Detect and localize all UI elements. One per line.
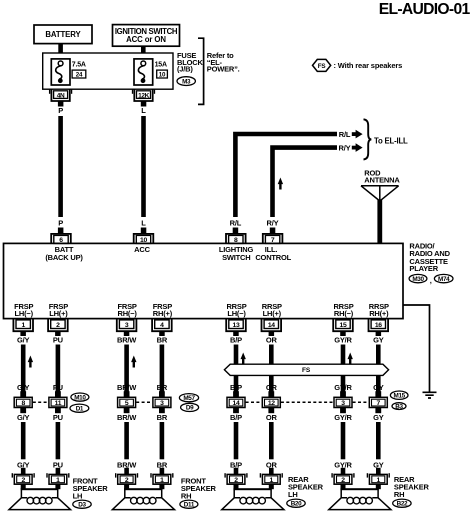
fuse 15A [134, 59, 153, 85]
svg-text:BR/W: BR/W [117, 383, 137, 392]
fuse 7.5A [51, 59, 70, 85]
wire stub to speaker connector [56, 468, 61, 475]
arrow up on GY/R [348, 353, 353, 360]
svg-text:1: 1 [270, 477, 274, 484]
connector D9 [181, 403, 199, 411]
svg-text:OR: OR [266, 336, 278, 345]
svg-text:RH(−): RH(−) [334, 309, 354, 318]
wire B/P lower [234, 422, 239, 459]
svg-text:14: 14 [233, 400, 240, 407]
brace to EL-ILL [364, 119, 372, 159]
svg-text:ACC: ACC [134, 245, 150, 254]
battery [34, 25, 92, 44]
wire ignition switch to fuse [141, 46, 146, 61]
svg-text:RH: RH [181, 492, 191, 501]
svg-text:To EL-ILL: To EL-ILL [374, 136, 408, 145]
wire G/Y lower [21, 422, 26, 459]
svg-text:RH(+): RH(+) [369, 309, 389, 318]
bracket refer to EL-POWER [198, 38, 204, 104]
front speaker LH [21, 484, 26, 489]
connector M57 [179, 394, 198, 402]
speaker connector 2 [224, 473, 226, 477]
wire L stub [141, 101, 147, 107]
connector M3 [177, 77, 195, 86]
wire stub pin 13 [233, 331, 239, 336]
svg-text:GY/R: GY/R [334, 383, 352, 392]
svg-text:4: 4 [160, 322, 164, 329]
svg-text:BR/W: BR/W [117, 413, 137, 422]
connector B20 [287, 499, 305, 507]
connector 3 [159, 391, 165, 398]
wire stub to speaker connector [376, 468, 381, 475]
svg-text:M3: M3 [182, 78, 191, 85]
speaker connector 2 [115, 473, 117, 477]
svg-text:13: 13 [233, 322, 240, 329]
svg-text:2: 2 [21, 477, 25, 484]
connector 11 [55, 391, 61, 398]
arrow up on B/P [241, 353, 246, 360]
svg-text:24: 24 [76, 72, 83, 79]
wire stub pin 14 [269, 331, 275, 336]
svg-text:12: 12 [268, 400, 275, 407]
wire GY upper [376, 345, 381, 365]
svg-text:G/Y: G/Y [17, 336, 30, 345]
svg-text:R/L: R/L [339, 130, 351, 139]
ignition switch ACC or ON [113, 25, 180, 47]
svg-text:GY/R: GY/R [334, 413, 352, 422]
svg-text:RH(+): RH(+) [153, 309, 173, 318]
svg-text:B/P: B/P [230, 336, 242, 345]
radio unit box [4, 243, 404, 318]
svg-text:BR: BR [157, 383, 168, 392]
wire R/L [235, 134, 337, 217]
svg-text:G/Y: G/Y [17, 413, 30, 422]
svg-text:,: , [430, 276, 432, 285]
antenna mast wire [377, 200, 382, 243]
pin 7 [263, 234, 283, 244]
wire stub to pin 7 [270, 228, 276, 235]
connector D1 [70, 404, 89, 412]
arrow up on BR/W [131, 356, 136, 363]
wire stub to pin 6 [58, 228, 64, 235]
svg-text:LH(+): LH(+) [49, 309, 68, 318]
speaker connector 1 [150, 473, 152, 477]
svg-text:LH: LH [73, 492, 83, 501]
svg-text:11: 11 [55, 400, 62, 407]
svg-text:3: 3 [160, 400, 164, 407]
dashed link 3-7 [353, 401, 369, 403]
pin 2 [48, 318, 68, 331]
svg-text:B22: B22 [397, 500, 408, 507]
svg-text:OR: OR [266, 383, 278, 392]
svg-text:4N: 4N [57, 92, 65, 99]
wire battery to fuse [58, 44, 63, 62]
svg-text:D9: D9 [186, 405, 194, 412]
arrow right R/L [352, 132, 356, 136]
wire stub to pin 10 [141, 228, 147, 235]
dashed link 8-11 [33, 401, 49, 403]
svg-text:M15: M15 [394, 392, 406, 399]
fuse block J/B [43, 53, 173, 89]
svg-text:BR/W: BR/W [117, 336, 137, 345]
wire stub pin 16 [376, 331, 382, 336]
pin 15 [333, 318, 353, 331]
svg-text:LH(−): LH(−) [15, 309, 34, 318]
wire GY lower [376, 422, 381, 459]
connector 12 [268, 391, 274, 398]
wire BR upper [160, 345, 165, 398]
wire P [58, 116, 63, 217]
svg-text:ANTENNA: ANTENNA [364, 176, 400, 185]
svg-text:8: 8 [21, 400, 25, 407]
svg-text:12K: 12K [138, 92, 150, 99]
svg-text:GY: GY [373, 383, 384, 392]
speaker connector 1 [46, 473, 48, 477]
svg-text:(BACK UP): (BACK UP) [45, 253, 83, 262]
front speaker RH [124, 484, 129, 489]
svg-text:1: 1 [21, 322, 25, 329]
wire PU lower [56, 422, 61, 459]
wire GY/R lower [341, 422, 346, 459]
svg-text:2: 2 [234, 477, 238, 484]
ground symbol [423, 392, 437, 398]
svg-text:R/Y: R/Y [339, 143, 351, 152]
arrow up on R/Y [278, 178, 283, 185]
svg-text:CONTROL: CONTROL [255, 253, 291, 262]
pin 1 [13, 318, 33, 331]
speaker connector 1 [259, 473, 261, 477]
svg-text:B/P: B/P [230, 413, 242, 422]
svg-text:PU: PU [53, 413, 63, 422]
svg-text:PLAYER: PLAYER [409, 264, 438, 273]
speaker connector 2 [11, 473, 13, 477]
svg-text:G/Y: G/Y [17, 383, 30, 392]
connector M15 [390, 391, 408, 399]
svg-text:LH(−): LH(−) [227, 309, 246, 318]
connector B3 [392, 403, 406, 410]
connector M74 [434, 274, 453, 282]
connector 8 [20, 391, 26, 398]
wire OR upper [269, 345, 274, 365]
wire PU upper [56, 345, 61, 398]
svg-text:M57: M57 [183, 395, 195, 402]
wire R/Y [273, 148, 338, 217]
rod antenna symbol [361, 186, 399, 201]
svg-text:7.5A: 7.5A [72, 61, 86, 68]
wire BR/W upper [124, 345, 129, 398]
svg-text:L: L [141, 106, 146, 115]
connector D11 [180, 500, 198, 508]
svg-text:PU: PU [53, 336, 63, 345]
connector 3 [340, 391, 346, 398]
svg-text:ACC or ON: ACC or ON [126, 35, 166, 44]
svg-text:FS: FS [302, 367, 311, 374]
svg-text:B3: B3 [395, 403, 403, 410]
wire OR lower [269, 422, 274, 459]
svg-text:LH(+): LH(+) [263, 309, 282, 318]
fuse number 24 [72, 70, 86, 78]
svg-text:D3: D3 [78, 501, 86, 508]
wire L [141, 116, 146, 217]
wire stub pin 2 [55, 331, 61, 336]
svg-text:P: P [58, 106, 63, 115]
svg-text:B/P: B/P [230, 383, 242, 392]
svg-text:14: 14 [268, 322, 275, 329]
svg-text:FS: FS [318, 63, 326, 70]
rear speaker LH [234, 484, 239, 489]
legend FS with rear speakers [313, 59, 331, 71]
svg-text:R/Y: R/Y [267, 219, 279, 228]
svg-text:3: 3 [125, 322, 129, 329]
svg-text:BR: BR [157, 336, 168, 345]
wire stub pin 3 [124, 331, 130, 336]
wire GY/R upper [341, 345, 346, 365]
speaker connector 2 [331, 473, 333, 477]
connector M10 [71, 393, 89, 401]
svg-text:RH(−): RH(−) [117, 309, 137, 318]
pin 4 [152, 318, 172, 331]
svg-text:P: P [58, 219, 63, 228]
pin 6 [51, 234, 71, 244]
pin 10 [134, 234, 154, 244]
dashed link 5-3 [136, 401, 152, 403]
svg-text:15A: 15A [155, 61, 167, 68]
svg-text:2: 2 [341, 477, 345, 484]
rear speaker RH [341, 484, 346, 489]
connector B22 [393, 499, 411, 507]
wire BR/W lower [124, 422, 129, 459]
svg-text:BR: BR [157, 413, 168, 422]
svg-text:GY: GY [373, 336, 384, 345]
connector 4N [49, 90, 51, 94]
svg-text:M10: M10 [74, 394, 86, 401]
svg-text:M74: M74 [438, 276, 450, 283]
wire P stub [58, 101, 64, 107]
arrow up on G/Y [28, 356, 33, 363]
wire stub to pin 8 [233, 228, 239, 235]
svg-text:GY: GY [373, 413, 384, 422]
svg-text:(J/B): (J/B) [177, 65, 193, 74]
wire stub to speaker connector [160, 468, 165, 475]
connector 5 [124, 391, 130, 398]
wire BR lower [160, 422, 165, 459]
speaker connector 1 [366, 473, 368, 477]
dashed link 12-3 [281, 401, 334, 403]
wire stub pin 15 [340, 331, 346, 336]
wire stub to speaker connector [269, 468, 274, 475]
svg-text:2: 2 [56, 322, 60, 329]
svg-text:OR: OR [266, 413, 278, 422]
wire G/Y upper [21, 345, 26, 398]
ground wire [403, 305, 430, 392]
svg-text:M30: M30 [412, 276, 424, 283]
pin 16 [369, 318, 389, 331]
svg-text:L: L [141, 219, 146, 228]
svg-text:D1: D1 [76, 405, 84, 412]
svg-text:1: 1 [160, 477, 164, 484]
svg-text:1: 1 [377, 477, 381, 484]
svg-text:3: 3 [341, 400, 345, 407]
svg-text:15: 15 [340, 322, 347, 329]
svg-text:D11: D11 [184, 501, 195, 508]
svg-text:BATTERY: BATTERY [45, 30, 81, 39]
pin 8 [226, 234, 246, 244]
svg-text:1: 1 [56, 477, 60, 484]
fuse number 10 [157, 70, 168, 78]
svg-text:PU: PU [53, 383, 63, 392]
connector 14 [233, 391, 239, 398]
band FS with rear speakers [224, 364, 388, 375]
svg-text:POWER”.: POWER”. [207, 65, 240, 74]
wire stub pin 4 [159, 331, 165, 336]
svg-text:10: 10 [159, 72, 166, 79]
connector M30 [409, 274, 427, 282]
svg-text:: With rear speakers: : With rear speakers [334, 61, 403, 70]
arrow right R/Y [352, 146, 356, 150]
svg-text:2: 2 [125, 477, 129, 484]
svg-text:16: 16 [375, 322, 382, 329]
svg-text:RH: RH [394, 490, 404, 499]
pin 3 [117, 318, 137, 331]
svg-text:7: 7 [377, 400, 381, 407]
pin 13 [226, 318, 246, 331]
connector 7 [375, 391, 381, 398]
svg-text:EL-AUDIO-01: EL-AUDIO-01 [379, 1, 471, 18]
wire stub to speaker connector [341, 468, 346, 475]
svg-text:R/L: R/L [230, 219, 242, 228]
wire stub to speaker connector [124, 468, 129, 475]
pin 14 [262, 318, 282, 331]
svg-text:SWITCH: SWITCH [222, 253, 250, 262]
svg-text:GY/R: GY/R [334, 336, 352, 345]
connector D3 [73, 500, 91, 508]
svg-text:LH: LH [288, 490, 298, 499]
wire stub to speaker connector [234, 468, 239, 475]
wire stub to speaker connector [21, 468, 26, 475]
wire stub pin 1 [20, 331, 26, 336]
svg-text:5: 5 [125, 400, 129, 407]
svg-text:B20: B20 [291, 500, 302, 507]
dashed link 14-12 [246, 401, 262, 403]
wire B/P upper [234, 345, 239, 365]
connector 12K [132, 90, 134, 94]
